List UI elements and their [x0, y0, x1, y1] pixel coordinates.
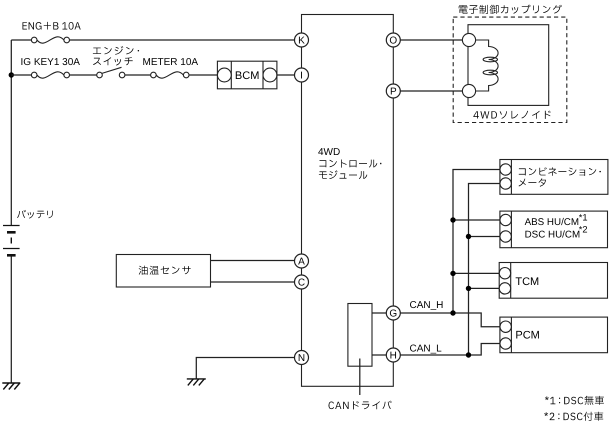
- TCM: [499, 263, 607, 299]
- pin N: [295, 351, 309, 365]
- label スイッチ: [93, 57, 133, 65]
- label コントロール・: [319, 160, 381, 168]
- pin P: [386, 84, 400, 98]
- label ENG＋B 10A: [23, 22, 81, 30]
- svg-text:BCM: BCM: [235, 70, 259, 82]
- pin H: [386, 348, 400, 362]
- switch engine switch エンジン・スイッチ: [97, 72, 103, 78]
- fuse IG KEY1 30A: [31, 72, 37, 78]
- wire pin O to solenoid: [400, 39, 462, 41]
- label CANドライバ: [329, 401, 392, 410]
- wire left supply rail (battery +): [10, 40, 12, 383]
- electronic control coupling 電子制御カップリング (dashed enclosure): [453, 17, 567, 122]
- label エンジン・: [93, 46, 139, 55]
- fuse ENG+B 10A: [31, 37, 37, 43]
- wire CAN_L: pin H to PCM with bus branch: [400, 344, 500, 356]
- svg-text:IG KEY1 30A: IG KEY1 30A: [21, 57, 81, 68]
- junction dots on CAN bus: [450, 217, 455, 222]
- svg-text:I: I: [300, 71, 303, 82]
- pin O: [386, 33, 400, 47]
- ground (battery): [2, 382, 20, 384]
- wire pin P to solenoid: [400, 90, 462, 92]
- svg-text:O: O: [389, 36, 397, 47]
- label 電子制御カップリング: [459, 5, 562, 14]
- wire sensor to pin C: [211, 281, 295, 283]
- branch CAN_L to ABS/DSC: [469, 236, 500, 238]
- 4WD solenoid box: [468, 25, 549, 106]
- svg-text:N: N: [298, 353, 305, 364]
- note *2: DSC付車: [544, 412, 603, 421]
- svg-text:PCM: PCM: [515, 330, 539, 342]
- svg-text:C: C: [298, 278, 305, 289]
- svg-text:CAN_H: CAN_H: [410, 300, 444, 311]
- oil temperature sensor 油温センサ: [116, 255, 210, 288]
- svg-text:H: H: [390, 351, 397, 362]
- svg-text:TCM: TCM: [515, 276, 539, 288]
- wire CAN_H: pin G to PCM with bus branch: [400, 313, 500, 327]
- note *1: DSC無車: [545, 396, 604, 405]
- svg-text:P: P: [390, 87, 397, 98]
- wire IG KEY1 row: [11, 74, 294, 76]
- svg-text:DSC HU/CM: DSC HU/CM: [525, 229, 581, 240]
- pin C: [295, 275, 309, 289]
- junction: rail to IG KEY1 row: [9, 72, 14, 77]
- CAN driver box CANドライバ: [348, 304, 372, 367]
- branch CAN_H to ABS/DSC: [453, 219, 500, 221]
- svg-text:K: K: [298, 36, 305, 47]
- bus line CAN_H vertical: [453, 170, 500, 314]
- svg-text:*1: *1: [579, 212, 588, 222]
- label コンビネーション・: [519, 167, 601, 176]
- fuse METER 10A: [151, 72, 157, 78]
- wire CAN driver to pin H: [372, 354, 386, 356]
- svg-text:METER 10A: METER 10A: [143, 57, 199, 68]
- svg-text:ABS HU/CM: ABS HU/CM: [525, 217, 579, 228]
- svg-text:A: A: [298, 257, 305, 268]
- wire ENG+B row: [11, 39, 294, 41]
- leader line to CANドライバ label: [359, 359, 361, 396]
- wire pin N to ground: [196, 358, 294, 379]
- label モジュール: [319, 170, 367, 179]
- BCM module: [217, 61, 277, 89]
- svg-text:*2: *2: [579, 225, 588, 235]
- svg-text:4WD: 4WD: [318, 147, 340, 158]
- label メータ: [519, 178, 546, 186]
- combination meter コンビネーション・メータ: [500, 160, 608, 195]
- PCM: [500, 317, 608, 353]
- wire CAN driver to pin G: [372, 312, 386, 314]
- solenoid terminal circles: [462, 33, 475, 46]
- pin A: [295, 254, 309, 268]
- solenoid coil: [476, 40, 499, 91]
- ABS HU/CM / DSC HU/CM: [500, 211, 608, 248]
- branch CAN_L to TCM: [469, 287, 500, 289]
- 4WD control module box: [302, 15, 394, 387]
- label 油温センサ: [139, 266, 191, 275]
- label バッテリ: [17, 210, 53, 219]
- label 4WDソレノイド: [473, 111, 550, 119]
- bus line CAN_L vertical: [469, 184, 500, 356]
- pin K: [295, 33, 309, 47]
- pin G: [386, 306, 400, 320]
- ground (module): [187, 378, 206, 380]
- battery バッテリ: [3, 226, 20, 256]
- svg-text:CAN_L: CAN_L: [410, 344, 443, 355]
- pin I: [295, 68, 309, 82]
- branch CAN_H to TCM: [453, 272, 500, 274]
- wire sensor to pin A: [211, 260, 295, 262]
- svg-text:G: G: [389, 309, 397, 320]
